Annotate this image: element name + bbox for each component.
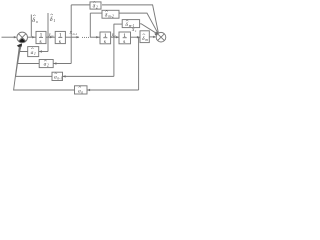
svg-text:1: 1 (53, 18, 55, 23)
svg-text:1: 1 (123, 33, 126, 39)
svg-text:1: 1 (34, 52, 36, 56)
svg-text:δ: δ (32, 18, 35, 24)
svg-text:1: 1 (40, 33, 43, 39)
svg-text:2: 2 (96, 6, 98, 10)
svg-text:s: s (40, 39, 42, 45)
svg-text:n: n (81, 90, 83, 94)
svg-text:m-1: m-1 (129, 24, 135, 28)
svg-text:m-1: m-1 (73, 32, 78, 36)
svg-text:1: 1 (104, 33, 107, 39)
svg-text:s: s (104, 39, 106, 45)
svg-text:1: 1 (59, 33, 62, 39)
svg-text:m: m (145, 38, 148, 42)
svg-text:s: s (59, 39, 61, 45)
svg-text:m-2: m-2 (108, 15, 114, 19)
svg-text:δ: δ (50, 17, 53, 23)
svg-text:o: o (36, 19, 38, 24)
svg-text:s: s (123, 39, 125, 45)
svg-text:n-1: n-1 (57, 77, 62, 81)
svg-text:2: 2 (47, 64, 49, 68)
